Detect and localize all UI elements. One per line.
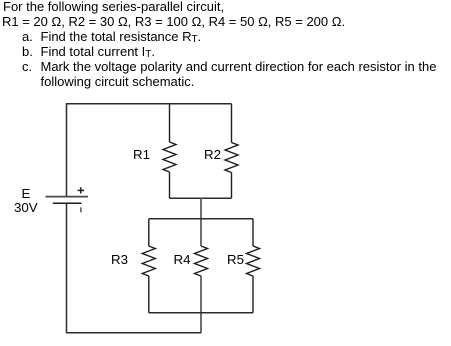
label R5 [227,252,244,267]
wire: middle connector (gray) from R1/R2 pair down to R4 [200,198,202,246]
resistor R2 [225,104,238,198]
resistor R3 [142,219,155,313]
wire: top rail of R3/R4/R5 group [149,218,253,220]
resistor R1 [163,104,176,198]
problem statement line 1 [3,0,224,14]
battery E: negative plate (short) [53,202,82,204]
wire: bottom return from R4 to battery - [67,203,202,333]
label R2 [204,147,221,162]
list item c [22,59,32,74]
battery E: positive plate (long) [46,196,89,198]
wire: bottom rail of R3/R4/R5 group [149,312,253,314]
resistor R5 [247,219,260,313]
label E [22,186,31,201]
wire: top rail from battery + to R2 [67,104,232,197]
label R4 [174,252,191,267]
problem statement line 2 [2,14,345,29]
list item b [22,44,33,59]
resistor R4 (zigzag) [195,246,208,276]
label R3 [111,252,128,267]
battery polarity - tick mark [80,207,82,212]
wire: R4 lower lead (gray) down to bottom return [200,276,202,333]
battery polarity + mark [78,187,84,193]
wire: bottom of R1/R2 parallel pair [170,197,232,199]
label R1 [133,147,150,162]
list item a [22,29,33,44]
label 30V [14,200,38,215]
